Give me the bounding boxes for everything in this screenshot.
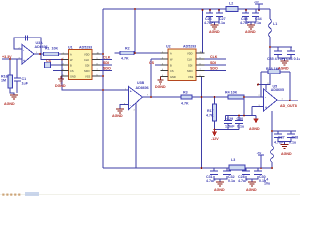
svg-text:AGND: AGND [214,188,225,192]
svg-text:A: A [70,52,72,56]
svg-text:0.1u: 0.1u [237,125,244,129]
svg-text:CLK: CLK [187,57,192,61]
svg-text:SDO: SDO [210,67,218,71]
svg-text:AGND: AGND [4,102,15,106]
svg-text:U3B: U3B [137,81,145,85]
svg-text:0.1u: 0.1u [259,179,266,183]
svg-text:C30: C30 [237,117,244,121]
svg-text:DGND: DGND [155,85,166,89]
svg-text:R4 10K: R4 10K [225,91,238,95]
svg-text:AGND: AGND [246,188,257,192]
svg-text:1uF: 1uF [22,82,29,86]
svg-text:SDI: SDI [103,61,109,65]
svg-text:AGND: AGND [209,30,220,34]
svg-text:4.7K: 4.7K [121,57,129,61]
svg-text:CLK: CLK [210,55,218,59]
svg-text:CS: CS [149,61,155,65]
svg-text:SDI: SDI [210,61,216,65]
svg-text:CS: CS [170,69,174,73]
svg-text:A: A [170,51,172,55]
svg-text:4.7K: 4.7K [181,102,189,106]
svg-text:SDI: SDI [188,63,193,67]
svg-text:AGND: AGND [112,114,123,118]
svg-text:+: + [265,105,267,109]
svg-text:0.1u: 0.1u [289,141,296,145]
svg-text:CLK: CLK [84,58,89,62]
svg-text:CS: CS [70,69,74,73]
svg-text:AD5293: AD5293 [183,45,196,49]
svg-text:4.7uF: 4.7uF [240,21,250,25]
svg-text:B: B [70,63,72,67]
svg-text:L1: L1 [273,22,277,26]
svg-text:B: B [170,63,172,67]
svg-text:C1: C1 [22,77,27,81]
svg-text:C36 0.1u: C36 0.1u [286,57,300,61]
svg-text:0.1u: 0.1u [228,179,235,183]
svg-text:■ ■ ■ ■ ■: ■ ■ ■ ■ ■ [2,192,21,197]
svg-text:AGND: AGND [278,67,289,71]
svg-text:VDD: VDD [187,51,193,55]
svg-text:+: + [23,59,25,63]
svg-text:AD5293: AD5293 [79,46,92,50]
svg-text:GND: GND [70,74,76,78]
svg-text:0.1u: 0.1u [254,21,261,25]
svg-text:4.7K: 4.7K [206,114,214,118]
svg-text:0.1u: 0.1u [218,21,225,25]
svg-text:L2: L2 [229,2,233,6]
svg-text:L3: L3 [231,158,235,162]
svg-text:U1: U1 [68,46,73,50]
svg-text:-12V: -12V [211,137,219,141]
svg-text:+5V: +5V [257,151,262,155]
svg-text:R38 1M: R38 1M [266,67,279,71]
svg-text:VSS: VSS [85,74,90,78]
svg-text:R1: R1 [45,47,50,51]
svg-text:R3: R3 [183,91,188,95]
svg-text:4.7uF: 4.7uF [238,179,248,183]
svg-text:CLK: CLK [103,56,111,60]
svg-text:C35 4.7uF: C35 4.7uF [267,57,285,61]
svg-text:AD8606: AD8606 [136,86,149,90]
svg-text:4.7uF: 4.7uF [204,21,214,25]
svg-text:SDO: SDO [103,67,111,71]
svg-text:R2: R2 [125,47,130,51]
svg-text:4.7uF: 4.7uF [274,141,284,145]
svg-text:SDO: SDO [187,69,193,73]
svg-text:R17: R17 [207,109,214,113]
svg-text:SDO: SDO [84,69,90,73]
svg-text:+3.3V: +3.3V [2,55,12,59]
svg-text:AD_OUT8: AD_OUT8 [280,104,297,108]
svg-text:C29: C29 [227,117,234,121]
svg-text:SDI: SDI [85,63,90,67]
svg-text:AGND: AGND [281,152,292,156]
svg-text:CS: CS [46,59,52,63]
svg-text:4.7uF: 4.7uF [206,179,216,183]
svg-text:AGND: AGND [249,127,260,131]
svg-text:C38: C38 [292,136,299,140]
svg-text:10K: 10K [52,47,59,51]
svg-text:AD8605: AD8605 [271,88,284,92]
svg-text:1M: 1M [1,79,6,83]
svg-text:GND: GND [170,75,176,79]
svg-text:C37: C37 [278,136,285,140]
svg-text:+: + [130,90,132,94]
svg-text:+5V: +5V [254,0,259,4]
svg-text:AGND: AGND [245,30,256,34]
svg-text:DGND: DGND [55,84,66,88]
svg-text:1.5nF: 1.5nF [225,125,235,129]
svg-text:VDD: VDD [84,52,90,56]
svg-text:U2: U2 [166,45,171,49]
svg-text:VSS: VSS [188,75,193,79]
